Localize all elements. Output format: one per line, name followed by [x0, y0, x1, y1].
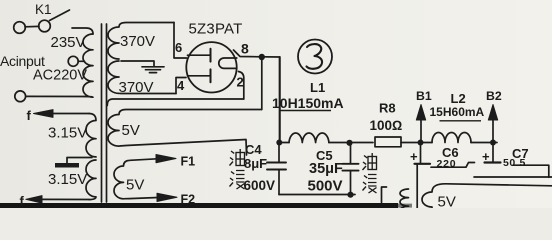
5V winding (rectifier filament) — [108, 110, 262, 156]
wire f upper — [52, 113, 89, 115]
arrow B1 — [416, 105, 425, 143]
svg-text:+: + — [410, 149, 418, 164]
svg-text:8: 8 — [241, 41, 249, 57]
svg-text:R8: R8 — [379, 101, 396, 116]
arrow f upper — [34, 110, 54, 118]
bottom transformer 5V winding — [422, 184, 552, 208]
winding 3.15V lower — [86, 160, 96, 200]
svg-text:235V: 235V — [51, 34, 86, 51]
CJK oil-immersed label for C4 (char jin) — [230, 171, 245, 190]
svg-text:600V: 600V — [244, 178, 276, 193]
transformer core — [102, 24, 107, 202]
ground (HV center tap) — [142, 67, 164, 73]
wire L2 to B2 — [471, 142, 497, 144]
choke L2 — [432, 133, 471, 143]
CJK oil-immersed label for C4 (char you) — [230, 149, 245, 166]
svg-text:F1: F1 — [181, 155, 196, 169]
svg-text:500V: 500V — [308, 178, 343, 195]
svg-text:4: 4 — [177, 78, 185, 93]
filament loop — [219, 58, 237, 68]
switch K1 — [14, 10, 70, 33]
svg-text:5V: 5V — [438, 194, 456, 209]
svg-text:5V: 5V — [126, 177, 144, 194]
pin 8 lead to junction — [234, 50, 280, 57]
svg-text:f: f — [20, 194, 25, 209]
svg-text:K1: K1 — [35, 2, 52, 17]
svg-text:5V: 5V — [122, 122, 140, 139]
transformer T1 primary winding — [83, 34, 93, 97]
circled 3 — [298, 40, 332, 74]
arrow F1 — [156, 155, 176, 163]
node C5 bottom — [347, 192, 353, 198]
svg-text:50: 50 — [503, 157, 516, 169]
capacitor C4 — [267, 143, 286, 195]
resistor R8 — [375, 137, 401, 147]
svg-text:B2: B2 — [486, 89, 502, 103]
svg-text:2: 2 — [237, 75, 244, 90]
wire primary bottom to input terminal — [26, 95, 84, 97]
svg-text:35μF: 35μF — [309, 161, 343, 177]
arrow F2 — [157, 193, 177, 201]
wire L1 to R8 — [329, 142, 373, 144]
CJK oil-immersed label for C5 (char jin) — [363, 175, 377, 194]
svg-text:6: 6 — [175, 40, 182, 55]
choke L1 — [289, 133, 329, 142]
svg-text:L2: L2 — [451, 91, 466, 106]
wire R8 to L2 — [401, 142, 432, 144]
svg-text:5: 5 — [520, 157, 526, 169]
winding 3.15V upper — [86, 114, 96, 158]
bottom rail — [279, 194, 355, 196]
svg-text:F2: F2 — [181, 193, 196, 207]
ground bar (filament center tap) — [55, 163, 79, 168]
scan artifact bottom bar — [0, 203, 398, 208]
svg-text:370V: 370V — [119, 79, 154, 96]
B+ rail with choke L1 — [279, 142, 289, 144]
arrow B2 — [488, 105, 497, 143]
CJK oil-immersed label for C5 (char you) — [363, 153, 377, 170]
pin 2 lead — [239, 72, 244, 100]
underline 10H150mA — [279, 110, 331, 112]
wire HV bottom to pin 4 — [176, 78, 186, 94]
svg-text:15H60mA: 15H60mA — [430, 105, 485, 119]
anode plate pin 6 — [188, 49, 211, 62]
svg-text:5Z3PAT: 5Z3PAT — [189, 21, 243, 38]
svg-text:100Ω: 100Ω — [370, 118, 403, 133]
HV winding 370V lower — [108, 61, 176, 94]
wire to primary top — [72, 28, 93, 34]
wire B+ down to C4 node — [279, 57, 281, 143]
svg-text:f: f — [27, 108, 32, 123]
terminal AC input bottom — [15, 91, 26, 102]
5V winding (F1 F2) — [114, 159, 158, 199]
bottom transformer left winding — [400, 189, 409, 215]
node N2 (C5 top) — [346, 140, 352, 146]
capacitor C6 — [415, 143, 475, 168]
svg-text:370V: 370V — [120, 33, 155, 50]
svg-text:3.15V: 3.15V — [48, 171, 87, 188]
HV winding 370V upper — [108, 23, 174, 60]
wire J1 down to 5V winding — [261, 57, 263, 110]
wire lower right — [474, 176, 552, 178]
svg-text:C4: C4 — [245, 142, 262, 157]
capacitor C7 — [485, 143, 549, 178]
wire pin2 to 5V winding top — [107, 99, 244, 106]
node N1 (C4 / L1) — [276, 140, 282, 146]
bottom transformer core — [416, 164, 418, 208]
node N3 (B1) — [418, 140, 424, 146]
HV center tap wire — [121, 61, 154, 67]
wire f lower — [41, 198, 89, 200]
tap terminal 235V — [68, 56, 84, 66]
node N4 (B2) — [490, 140, 496, 146]
node J1 (B+ takeoff) — [259, 54, 265, 60]
anode plate pin 4 — [188, 69, 211, 82]
underline 15H60mA — [440, 120, 482, 122]
rectifier tube V1 5Z3PAT envelope — [186, 42, 236, 92]
svg-text:AC220V: AC220V — [33, 68, 87, 84]
center tap wire 3.15V — [67, 158, 92, 164]
svg-text:8μF: 8μF — [244, 156, 267, 171]
capacitor C5 — [343, 143, 359, 195]
arrow f lower — [26, 196, 42, 204]
wire hook lower left of bottom transformer — [382, 187, 387, 203]
svg-text:B1: B1 — [416, 89, 432, 103]
svg-text:L1: L1 — [310, 80, 325, 95]
svg-text:+: + — [482, 149, 490, 164]
svg-text:10H150mA: 10H150mA — [272, 95, 344, 111]
svg-text:220: 220 — [437, 158, 457, 170]
svg-text:3.15V: 3.15V — [48, 125, 87, 142]
wire HV top to pin 6 — [174, 23, 187, 59]
